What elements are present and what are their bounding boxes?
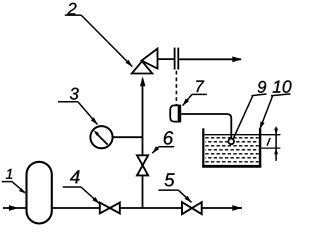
wire: riser vertical line (142, 79, 144, 208)
wire: bottom main line (3, 207, 242, 209)
gauge needle (96, 133, 108, 145)
dashed impulse line to nozzle 7 (175, 71, 177, 105)
flow arrow top-right (232, 56, 242, 62)
label 3 underline (58, 101, 78, 103)
dimension vertical line (275, 127, 277, 161)
label 10 (273, 80, 292, 92)
label 7 leader (183, 94, 192, 105)
label 9 (258, 81, 266, 93)
label 4 underline (63, 186, 81, 188)
label 2 underline (65, 14, 81, 16)
wire: gauge branch line (113, 136, 143, 138)
label 9 underline (252, 94, 267, 96)
flow arrow at bottom-right outlet (232, 205, 242, 211)
tank right wall (259, 128, 261, 166)
label 2 (67, 3, 76, 15)
water surface line (extends to right tick) (205, 134, 281, 136)
label 6 (164, 131, 173, 144)
dimension arrow up (274, 148, 278, 154)
label 10 leader (260, 95, 273, 129)
depth label l (267, 138, 270, 146)
label 5 underline (158, 189, 178, 191)
label 5 leader (178, 190, 191, 202)
label 1 (6, 169, 12, 179)
union bar right (177, 48, 179, 70)
label 1 leader (12, 182, 25, 193)
wire: outlet line to right arrow (179, 58, 241, 60)
label 3 leader (78, 102, 98, 125)
label 6 underline (159, 146, 174, 148)
ejector 2: upper triangle (142, 49, 158, 69)
nozzle 7 flat face bar (178, 105, 181, 123)
label 7 underline (192, 93, 207, 95)
valve 4 (100, 203, 120, 214)
label 9 leader (233, 95, 253, 138)
valve 5 (182, 202, 202, 214)
pipe outlet circle 9 (228, 139, 234, 145)
wire: ejector outlet line (158, 58, 174, 60)
label 6 leader (152, 147, 159, 154)
ejector 2: lower triangle (132, 61, 153, 73)
label 7 (196, 81, 204, 93)
flow arrow up into ejector (140, 76, 145, 86)
water hatching (205, 138, 258, 162)
pipe from nozzle 7 to tank (elbow) (181, 114, 231, 138)
label 10 underline (271, 94, 291, 96)
tank bottom (202, 165, 261, 168)
label 1 underline (2, 181, 12, 183)
label 4 leader (81, 187, 99, 204)
tank left wall (202, 128, 204, 166)
tank 1 (capsule receiver) (27, 162, 52, 224)
depth lower tick (261, 147, 280, 149)
label 4 (70, 170, 80, 183)
label 3 (70, 88, 79, 100)
valve 6 (vertical) (137, 155, 148, 175)
label 2 leader (81, 15, 132, 67)
union bar left (174, 48, 176, 70)
flow arrow into tank 1 (9, 205, 19, 211)
label 5 (165, 173, 175, 186)
pressure gauge 3 (90, 126, 112, 148)
dimension arrow down (274, 129, 278, 135)
nozzle 7 body (170, 105, 178, 121)
